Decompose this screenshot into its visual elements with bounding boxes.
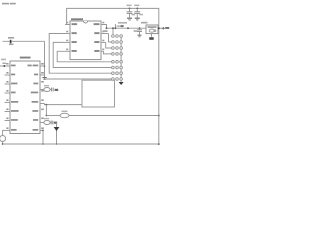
- wire GP2 to header: [104, 51, 112, 54]
- wire node down: [45, 105, 47, 116]
- capacitor C3: [129, 7, 131, 9]
- capacitor C4: [136, 7, 138, 9]
- wire regulator output: [158, 27, 162, 29]
- capacitor C1: [51, 88, 53, 92]
- wire to ground arrow: [56, 123, 58, 145]
- resistor R3 row: [40, 122, 44, 124]
- ground arrow header: [119, 82, 124, 85]
- capacitor C6: [139, 27, 141, 29]
- regulator U3 box: [146, 25, 158, 34]
- U2 pin numbers: [66, 22, 104, 50]
- wire GP0 to header: [109, 34, 112, 43]
- label U2 PIC12F629: [71, 18, 83, 20]
- block module box: [82, 80, 115, 107]
- ground arrow: [54, 127, 60, 131]
- title text top-left: [2, 3, 16, 5]
- U2 pin stubs left: [65, 24, 70, 26]
- resistor R2: [60, 113, 69, 117]
- wire +5 top rail: [67, 8, 159, 144]
- wire GP4 loop: [53, 42, 111, 67]
- wire regulator gnd: [151, 34, 153, 37]
- ground at pin15: [40, 74, 45, 76]
- resistor R1 with cap row: [40, 89, 44, 91]
- node antenna junction: [10, 40, 12, 44]
- wire mid +V rail: [101, 25, 146, 29]
- node +5v label: [162, 27, 169, 30]
- wire GP1 to header: [106, 42, 112, 48]
- wire header col3 chain: [120, 36, 122, 82]
- wire mic to pin8: [3, 130, 5, 135]
- wire rail to header col1: [112, 28, 114, 35]
- node pin1 junction: [3, 65, 5, 67]
- IC U1 MC3361 box: [10, 61, 40, 134]
- wire bottom rail: [3, 143, 159, 145]
- wire long audio line: [46, 115, 60, 117]
- U2 inside labels: [72, 23, 100, 52]
- wire GP5 loop: [49, 34, 111, 74]
- U1 left pin numbers: [6, 63, 8, 129]
- label U1 MC3361: [20, 57, 31, 59]
- capacitor C2: [50, 121, 52, 125]
- wire mic to ground rail: [2, 142, 4, 145]
- label near U1 top-left: [1, 59, 6, 61]
- IC U2 PIC12F629 box: [70, 21, 101, 60]
- wire pin16 branch to header row: [45, 78, 112, 80]
- notch: [84, 21, 88, 23]
- U2 pin stubs right: [101, 24, 107, 26]
- wire GP3 loop: [57, 51, 111, 62]
- wire U1 pin1 to left edge: [0, 65, 10, 67]
- wire pin9 to rail: [40, 129, 43, 131]
- wire pin16 to top line: [40, 65, 45, 67]
- wire top antenna line: [3, 40, 45, 42]
- header J1 circles: [112, 35, 123, 81]
- U1 left pin stubs: [5, 74, 11, 76]
- wire pin12 to block: [40, 103, 45, 105]
- label pin1 net: [2, 63, 6, 64]
- U1 inside pin labels: [11, 65, 38, 131]
- microphone MK1: [0, 136, 6, 142]
- diode D1 on rail: [114, 24, 116, 28]
- U1 right pin numbers: [41, 63, 44, 129]
